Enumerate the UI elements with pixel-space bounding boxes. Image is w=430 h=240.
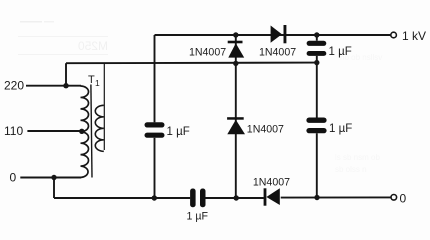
wire: drop from 0 tap junction to bottom rail bbox=[53, 178, 55, 199]
wire: right column vertical segment (top capacitor to middle capacitor) bbox=[316, 56, 318, 118]
wire: bottom rail left segment bbox=[54, 197, 190, 199]
node: junction of 0 tap and bottom rail drop bbox=[51, 175, 56, 180]
wire: right column vertical segment (middle capacitor to bottom rail) bbox=[316, 133, 318, 197]
diode D1 1N4007 (top vertical, between y63 bus and top rail) bbox=[228, 41, 245, 58]
svg-text:1 µF: 1 µF bbox=[187, 211, 209, 223]
wire: top rail from left corner to 1 kV terminal bbox=[155, 34, 392, 36]
svg-text:sb olss n: sb olss n bbox=[335, 165, 367, 174]
wire: secondary output bus at y=63 bbox=[66, 62, 317, 65]
svg-text:1N4007: 1N4007 bbox=[253, 177, 290, 189]
wire: bottom rail middle segment (cap to diode) bbox=[206, 197, 264, 199]
node: top rail at middle column bbox=[233, 32, 238, 37]
node: bottom rail at left column bbox=[152, 195, 157, 200]
wire: secondary top lead to y63 bus bbox=[103, 63, 105, 150]
svg-text:1N4007: 1N4007 bbox=[189, 47, 226, 59]
wire: drop from y63 bus down to 220 tap bbox=[65, 63, 67, 85]
svg-text:ls sb nsm ob: ls sb nsm ob bbox=[335, 153, 380, 162]
svg-text:1N4007: 1N4007 bbox=[247, 124, 284, 136]
capacitor 1µF (right column middle) bbox=[306, 118, 326, 134]
svg-text:M250: M250 bbox=[78, 39, 108, 53]
node: top rail at right column bbox=[314, 32, 319, 37]
terminal: 1 kV output bbox=[391, 32, 397, 38]
svg-text:T: T bbox=[88, 74, 95, 86]
node: y63 bus at middle column bbox=[233, 61, 238, 66]
capacitor 1µF (series, bottom rail) bbox=[190, 189, 205, 208]
wire: middle column vertical bbox=[235, 35, 237, 198]
diode D4 1N4007 (bottom series, pointing left) bbox=[264, 188, 280, 206]
svg-text:0: 0 bbox=[400, 192, 407, 206]
node: y63 bus end at right column bbox=[314, 60, 319, 65]
node: bottom rail at middle column bbox=[234, 195, 239, 200]
node: junction of 220 tap and bus drop bbox=[63, 83, 68, 88]
node: bottom rail at right column bbox=[314, 195, 319, 200]
wire: 220 tap lead bbox=[26, 85, 81, 87]
wire: left column vertical lower segment (left capacitor to bottom rail) bbox=[154, 138, 156, 198]
svg-text:1N4007: 1N4007 bbox=[259, 47, 296, 59]
svg-text:1 µF: 1 µF bbox=[329, 46, 352, 58]
wire: right column vertical segment (top rail to top capacitor) bbox=[316, 35, 318, 41]
svg-text:220: 220 bbox=[4, 79, 24, 93]
transformer T1 secondary winding bbox=[95, 105, 104, 151]
svg-text:1: 1 bbox=[95, 78, 100, 88]
wire: 0 tap lead bbox=[20, 177, 81, 179]
diode D2 1N4007 (top series, pointing right) bbox=[271, 25, 287, 43]
wire: 110 tap lead bbox=[27, 130, 81, 132]
diode D3 1N4007 (middle vertical) bbox=[227, 117, 245, 134]
svg-text:0: 0 bbox=[10, 171, 17, 185]
wire: bottom rail right segment (diode to 0 terminal) bbox=[281, 196, 391, 198]
faint page show-through artifacts (decorative) bbox=[18, 21, 382, 174]
wire: left column vertical upper segment (top rail to left capacitor) bbox=[154, 35, 156, 122]
capacitor 1µF (left column) bbox=[145, 122, 165, 138]
transformer T1 primary winding bbox=[81, 86, 89, 178]
svg-text:1 kV: 1 kV bbox=[402, 29, 426, 43]
transformer T1 core bbox=[91, 85, 92, 178]
node: 110 tap junction on winding bbox=[79, 129, 84, 134]
capacitor 1µF (right column top) bbox=[307, 41, 327, 56]
svg-text:110: 110 bbox=[4, 124, 23, 138]
svg-text:1 µF: 1 µF bbox=[167, 126, 190, 138]
terminal: 0 output bbox=[391, 195, 397, 201]
svg-text:1 µF: 1 µF bbox=[329, 123, 352, 135]
